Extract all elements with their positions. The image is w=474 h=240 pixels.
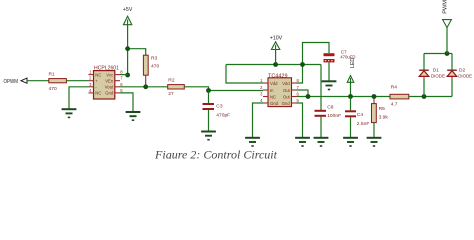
junction (+5V branch): [125, 46, 130, 51]
svg-text:DIODE: DIODE: [431, 74, 445, 79]
junction (U1 pin8 / +5V): [125, 73, 130, 78]
svg-text:1: 1: [89, 70, 92, 75]
wire pin8 to riser: [120, 74, 128, 76]
svg-text:6: 6: [297, 92, 300, 97]
wire U1 pin5 to ground: [120, 93, 133, 112]
svg-text:LED: LED: [350, 58, 356, 68]
svg-text:5: 5: [120, 88, 123, 93]
resistor R5: [372, 97, 389, 138]
wire U1 pin6 to R2: [120, 86, 168, 88]
svg-text:8: 8: [297, 78, 300, 83]
svg-text:470pF: 470pF: [216, 112, 230, 118]
junction (+10V on rail): [273, 62, 278, 67]
svg-text:+5V: +5V: [123, 7, 133, 13]
svg-text:2: 2: [89, 76, 92, 81]
svg-text:1: 1: [260, 78, 263, 83]
junction (C3 tap): [206, 88, 211, 93]
power +5V: [123, 7, 133, 25]
wire OPWM to R1: [27, 80, 49, 82]
node LED arrow: [347, 58, 356, 97]
U1 pin 8: [115, 70, 124, 75]
svg-text:7: 7: [297, 85, 300, 90]
resistor R2: [168, 77, 185, 97]
svg-text:100nF: 100nF: [327, 113, 341, 119]
junction (LED / C4 tap): [348, 94, 353, 99]
junction (R3 bottom): [143, 84, 148, 89]
U2 pin 4: [260, 98, 268, 103]
capacitor C4: [345, 97, 369, 138]
wire U2 pin5 to ground: [297, 103, 303, 138]
junction (PWM feed): [445, 51, 450, 56]
wire R4 to diodes: [409, 96, 452, 98]
svg-text:27: 27: [168, 91, 174, 97]
svg-text:2.5nF: 2.5nF: [357, 121, 370, 127]
svg-text:C8: C8: [327, 105, 334, 111]
U2 pin 3: [260, 92, 268, 97]
svg-text:+10V: +10V: [270, 36, 283, 42]
wire R2 to U2 pin2 with jog: [184, 87, 263, 91]
resistor R3: [143, 55, 159, 75]
svg-text:Gnd: Gnd: [105, 91, 114, 96]
U2 pin 2: [260, 85, 268, 90]
svg-text:C3: C3: [216, 104, 223, 110]
U1 pin 5: [115, 88, 124, 93]
U2 pin 6: [292, 92, 300, 97]
resistor R4: [390, 85, 409, 108]
ground (C7): [322, 81, 337, 89]
diode D2: [447, 54, 472, 97]
U1 pin 2: [89, 76, 94, 81]
svg-text:R5: R5: [379, 106, 386, 112]
svg-text:R2: R2: [168, 77, 175, 83]
wire +5V down to U1 pin8: [127, 25, 129, 75]
op-amp U1 HCPL2601: [94, 65, 120, 99]
svg-text:470: 470: [151, 64, 159, 70]
svg-text:VEn: VEn: [105, 79, 114, 84]
wire U2 pin7 to output node: [297, 90, 309, 97]
svg-text:7: 7: [120, 76, 123, 81]
U2 pin 8: [292, 78, 300, 83]
power +10V: [270, 36, 283, 65]
svg-text:D1: D1: [433, 67, 439, 73]
svg-text:OPWM: OPWM: [4, 79, 19, 85]
wire +10V rail: [226, 64, 321, 66]
ground (C8): [314, 138, 329, 146]
wire rail to U2 pin1: [226, 65, 263, 84]
junction (D1 anode): [422, 94, 427, 99]
wire U1 pin3 to ground: [69, 87, 89, 109]
op-amp U2 TC4429: [268, 73, 292, 106]
svg-text:D2: D2: [459, 67, 465, 73]
U2 pin 1: [260, 78, 268, 83]
svg-text:Out: Out: [283, 88, 291, 93]
junction (pin8 riser on rail): [300, 62, 305, 67]
svg-text:3.9k: 3.9k: [379, 114, 389, 120]
svg-text:Vcc: Vcc: [106, 72, 113, 77]
svg-text:NC: NC: [95, 91, 101, 96]
svg-text:4.7: 4.7: [391, 101, 398, 107]
node PWM port: [443, 0, 452, 54]
wire R1 to U1 pin2: [66, 80, 88, 82]
ground (U1 pin3): [62, 109, 77, 117]
svg-text:NC: NC: [270, 94, 276, 99]
svg-text:C4: C4: [357, 112, 364, 118]
svg-text:3: 3: [260, 92, 263, 97]
svg-text:4: 4: [89, 88, 92, 93]
svg-text:Vdd: Vdd: [270, 81, 278, 86]
svg-text:C7: C7: [341, 49, 347, 54]
svg-text:6: 6: [120, 82, 123, 87]
ground (C4): [343, 138, 358, 146]
U1 pin 3: [89, 82, 94, 87]
svg-text:DIODE: DIODE: [458, 74, 472, 79]
U2 pin 5: [292, 98, 300, 103]
U1 pin 1: [89, 70, 94, 75]
wire +5V branch to R3 top: [128, 49, 146, 55]
svg-text:5: 5: [297, 98, 300, 103]
svg-text:4: 4: [260, 98, 263, 103]
ground (U2 pin5): [295, 138, 310, 146]
svg-text:R1: R1: [49, 71, 56, 77]
capacitor C7: [324, 49, 356, 81]
node OPWM port: [4, 78, 28, 85]
junction (pins 6-7 join): [306, 94, 311, 99]
wire R3 bottom to node: [145, 75, 147, 87]
ground (U1 pin5): [126, 112, 141, 120]
capacitor C3: [203, 91, 231, 132]
svg-text:Out: Out: [283, 94, 291, 99]
svg-text:8: 8: [120, 70, 123, 75]
U2 pin 7: [292, 85, 300, 90]
U1 pin 4: [89, 88, 94, 93]
wire diode top bus: [424, 53, 452, 55]
junction (R5 tap): [372, 94, 377, 99]
ground (U2 pin4): [245, 138, 260, 146]
U1 pin 7: [115, 76, 124, 81]
svg-text:Vout: Vout: [105, 85, 114, 90]
svg-text:R4: R4: [391, 85, 398, 91]
svg-text:Figure 2: Control Circuit: Figure 2: Control Circuit: [154, 147, 278, 159]
capacitor C8: [315, 105, 342, 138]
diode D1: [419, 54, 445, 97]
ground (R5): [367, 138, 382, 146]
svg-text:R3: R3: [151, 56, 158, 62]
wire rail right end down to C8: [320, 65, 322, 111]
ground (C3): [201, 132, 216, 140]
svg-text:Gnd: Gnd: [282, 101, 291, 106]
resistor R1: [49, 71, 67, 91]
svg-text:2: 2: [260, 85, 263, 90]
svg-text:3: 3: [89, 82, 92, 87]
U1 pin 6: [115, 82, 124, 87]
svg-text:Gnd: Gnd: [270, 101, 279, 106]
wire U2 pin8 riser and C7 feed: [297, 43, 330, 84]
svg-text:Vdd: Vdd: [282, 81, 290, 86]
svg-text:PWM: PWM: [443, 0, 449, 14]
wire U2 pin4 to ground: [253, 103, 264, 138]
svg-text:470: 470: [49, 86, 57, 92]
svg-text:NC: NC: [95, 72, 101, 77]
wire output bus: [297, 96, 391, 98]
